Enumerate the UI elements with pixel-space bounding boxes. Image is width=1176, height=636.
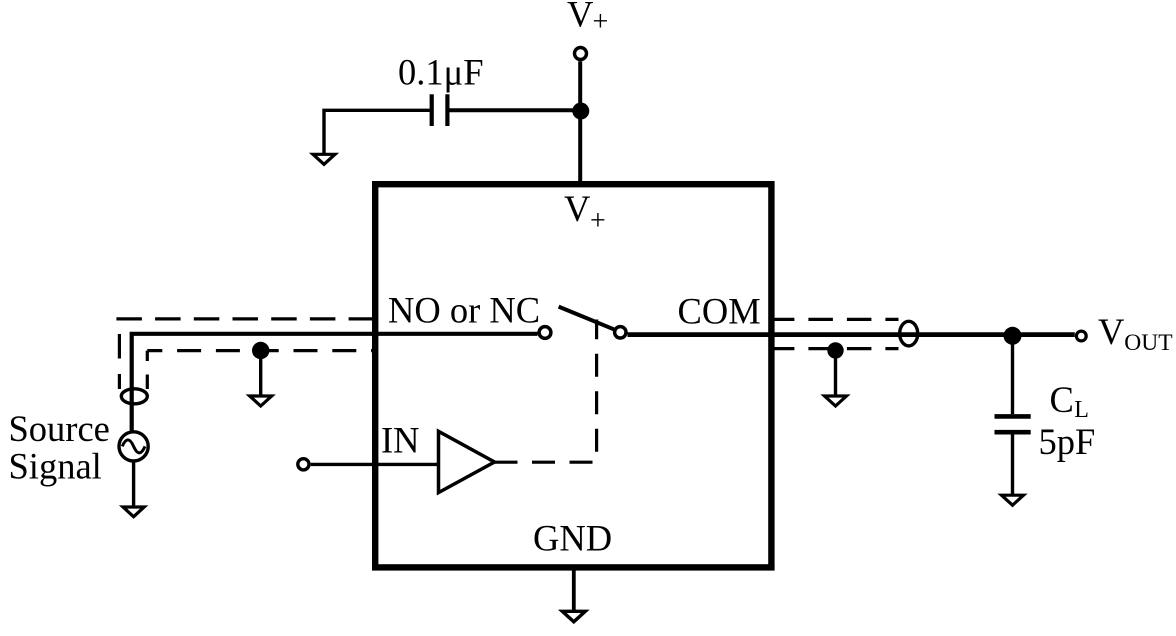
svg-text:IN: IN: [381, 420, 420, 461]
wire V+ terminal to box top: [578, 61, 582, 184]
switch blade S1: [559, 307, 614, 330]
svg-text:GND: GND: [533, 518, 612, 559]
shield dashed lower-right run: [775, 347, 899, 350]
terminal VOUT (open circle): [1076, 331, 1086, 341]
wire capacitor left plate to corner: [324, 110, 430, 154]
shield dashed upper-right run: [775, 318, 899, 321]
coax shield opening left (ellipse): [121, 389, 147, 404]
svg-text:NO or NC: NO or NC: [388, 290, 540, 331]
wire COM to VOUT (thick signal path): [628, 332, 1075, 337]
svg-text:5pF: 5pF: [1039, 421, 1096, 462]
shield dashed upper-left run: [116, 317, 372, 320]
wire right shield junction to ground: [834, 352, 837, 396]
source V1 AC circle: [119, 432, 148, 461]
terminal V+ (open circle): [575, 48, 587, 60]
junction dot on V+ wire: [572, 103, 589, 120]
shield dashed vertical left inner: [146, 351, 149, 389]
svg-text:0.1μF: 0.1μF: [398, 51, 484, 92]
svg-text:V: V: [567, 0, 593, 34]
svg-text:L: L: [1074, 397, 1089, 423]
wire left shield junction to ground: [259, 352, 262, 396]
svg-text:+: +: [593, 7, 609, 38]
svg-text:Signal: Signal: [9, 445, 102, 486]
svg-text:COM: COM: [678, 290, 761, 331]
wire source signal to NO (thick signal path): [132, 334, 538, 431]
junction dot at VOUT node: [1004, 327, 1022, 345]
wire VOUT node down to CL: [1011, 340, 1014, 414]
capacitor C bypass 0.1uF plates: [430, 94, 434, 126]
shield dashed vertical left outer: [118, 334, 121, 389]
source V1 sine wave: [122, 440, 145, 453]
IC body box U1: [375, 184, 771, 567]
wire source to ground: [132, 462, 135, 507]
ground (GND pin): [562, 611, 585, 622]
capacitor CL plates: [995, 414, 1031, 419]
terminal NO (open circle): [539, 327, 551, 339]
junction dot on left shield: [252, 342, 269, 359]
terminal COM pivot (open circle): [615, 327, 626, 338]
ground (right shield): [825, 396, 847, 406]
wire GND pin to ground: [572, 568, 576, 612]
svg-text:Source: Source: [9, 408, 110, 449]
wire junction to capacitor right plate: [449, 108, 580, 112]
svg-text:+: +: [590, 206, 606, 237]
svg-text:C: C: [1050, 379, 1074, 420]
ground (source signal): [123, 507, 144, 517]
terminal IN (open circle): [298, 459, 309, 470]
svg-text:OUT: OUT: [1124, 330, 1172, 356]
shield dashed lower-left run: [147, 349, 372, 352]
svg-text:V: V: [1098, 311, 1124, 352]
ground (CL): [1002, 495, 1024, 505]
coax shield opening right (ellipse): [900, 321, 918, 346]
ground (left shield): [250, 396, 272, 406]
wire CL to ground: [1011, 435, 1014, 496]
svg-text:V: V: [564, 188, 590, 229]
dashed control line from buffer to switch: [495, 320, 597, 463]
junction dot on right shield: [827, 342, 843, 358]
buffer amplifier A1 (triangle): [439, 431, 495, 492]
wire IN terminal to buffer: [311, 463, 439, 466]
ground (top-left, bypass cap): [313, 154, 335, 164]
